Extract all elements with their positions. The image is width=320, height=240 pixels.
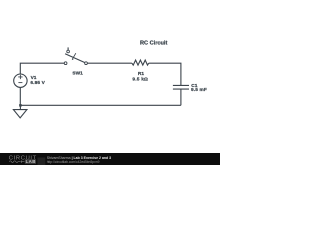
- wire bottom bus: [20, 104, 181, 106]
- wire from SW1 right terminal to R1: [87, 62, 131, 64]
- svg-text:LAB: LAB: [26, 159, 36, 164]
- junction node at V1/ground/bus: [19, 104, 22, 107]
- wire from R1 to C1 top plate: [149, 63, 181, 85]
- CircuitLab logo squiggle: [9, 160, 24, 163]
- svg-text:9.5 mF: 9.5 mF: [191, 87, 207, 93]
- ground: [13, 105, 27, 118]
- wire from C1 bottom plate down to bottom bus: [180, 89, 182, 105]
- switch SW1: [64, 47, 87, 64]
- footer black bar: [0, 153, 220, 165]
- CircuitLab logo LAB chip background: [25, 159, 36, 164]
- svg-text:SW1: SW1: [72, 71, 83, 77]
- voltage source V1: [14, 74, 27, 87]
- wire from V1 bottom to junction: [19, 87, 21, 105]
- wire from V1 top to SW1 left terminal: [20, 63, 64, 74]
- capacitor C1: [173, 85, 189, 89]
- svg-text:http://circuitlab.com/c42ed5bn: http://circuitlab.com/c42ed5bn5pvn9: [47, 160, 100, 164]
- svg-text:9.5 kΩ: 9.5 kΩ: [132, 76, 148, 82]
- resistor R1: [132, 60, 149, 65]
- footer avatar box: [38, 157, 46, 165]
- svg-text:RC Circuit: RC Circuit: [140, 41, 167, 47]
- svg-text:6.95 V: 6.95 V: [30, 80, 45, 86]
- svg-text:R1: R1: [138, 71, 144, 77]
